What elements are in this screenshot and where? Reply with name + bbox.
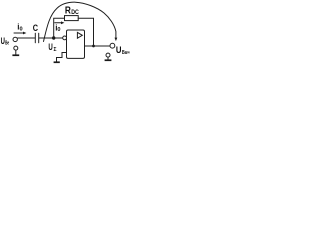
arrowhead of feedback arc xyxy=(115,38,118,42)
op-amp U1 body xyxy=(67,30,85,58)
svg-text:Be: Be xyxy=(5,40,9,46)
wire lower input to ground xyxy=(15,50,17,54)
wire capacitor to op-amp input xyxy=(39,37,63,39)
resistor RDC xyxy=(65,16,79,21)
ground (output side) xyxy=(105,59,112,61)
feedback arc RDC path xyxy=(44,2,116,41)
svg-text:U: U xyxy=(48,42,53,52)
svg-text:0: 0 xyxy=(20,26,23,32)
node feedback/output junction xyxy=(92,45,95,48)
node lower input terminal xyxy=(14,46,18,50)
wire feedback up xyxy=(54,18,65,38)
op-amp inverting input bubble xyxy=(63,36,67,40)
wire non-inverting input to ground xyxy=(57,53,67,62)
capacitor C xyxy=(35,33,38,43)
wire resistor to output xyxy=(78,18,93,46)
node output terminal xyxy=(110,43,115,48)
ground (non-inverting input) xyxy=(54,61,60,63)
wire output xyxy=(85,45,110,47)
wire input to capacitor xyxy=(18,37,35,39)
svg-text:U: U xyxy=(116,45,122,55)
svg-text:C: C xyxy=(33,23,38,34)
ground (input side) xyxy=(12,54,19,56)
node summing junction xyxy=(52,36,55,39)
svg-text:Σ: Σ xyxy=(54,47,57,53)
current arrow i0 (feedback) xyxy=(55,21,65,24)
svg-text:0: 0 xyxy=(57,27,60,33)
node lower output terminal xyxy=(106,53,110,57)
current arrow i0 (input) xyxy=(14,32,26,35)
op-amp triangle symbol xyxy=(77,32,82,38)
node Ube input terminal xyxy=(13,37,17,41)
svg-text:Ba∞: Ba∞ xyxy=(122,50,130,56)
wire lower output to ground xyxy=(107,57,109,59)
svg-text:DC: DC xyxy=(71,9,79,16)
svg-text:R: R xyxy=(65,5,71,16)
